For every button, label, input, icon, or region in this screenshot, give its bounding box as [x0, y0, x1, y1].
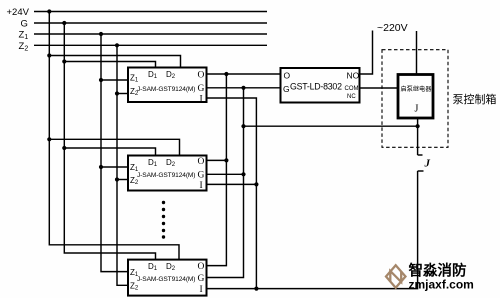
svg-text:J-SAM-GST9124(M): J-SAM-GST9124(M): [137, 276, 196, 283]
node I m3: [254, 287, 258, 291]
wire G bus vertical: [207, 88, 244, 278]
wire O bus vertical: [207, 74, 227, 266]
node +24V/V1: [47, 9, 51, 13]
wire feedback G to relay node: [244, 125, 418, 127]
node G m1: [241, 86, 245, 90]
svg-text:zmjaxf.com: zmjaxf.com: [409, 278, 474, 292]
contact J upper tick: [418, 154, 423, 156]
wire G module1 to 8302: [207, 87, 281, 89]
wire D1 branch module2: [64, 148, 155, 156]
node D1 branch m2: [62, 146, 66, 150]
pump relay J box: [398, 75, 433, 119]
logo icon: [386, 265, 406, 288]
module U1 box: [128, 68, 207, 103]
wire I module3 to contact J: [207, 171, 418, 289]
svg-text:Z1: Z1: [19, 30, 29, 42]
node O m2: [224, 158, 228, 162]
svg-text:Z2: Z2: [19, 41, 29, 53]
wire Z1 module2: [101, 166, 128, 168]
node D2 branch m2: [47, 137, 51, 141]
wire 220V to relay coil: [416, 31, 418, 75]
svg-text:NO: NO: [347, 71, 360, 81]
wire D1 branch module1: [64, 62, 155, 68]
node Z1 m2: [99, 165, 103, 169]
wire NO of 8302 to 220V: [360, 31, 373, 75]
wire G module2: [207, 173, 244, 175]
wire Z2 module1: [117, 93, 128, 95]
svg-text:I: I: [200, 181, 203, 191]
svg-text:O: O: [284, 71, 291, 81]
svg-text:J-SAM-GST9124(M): J-SAM-GST9124(M): [137, 86, 196, 93]
wire Z2 module2: [117, 179, 128, 181]
wire I module2: [207, 183, 257, 185]
node G/V2: [62, 21, 66, 25]
svg-text:GST-LD-8302: GST-LD-8302: [290, 82, 342, 92]
svg-text:J: J: [424, 158, 431, 170]
svg-text:I: I: [200, 95, 203, 105]
node Z2 m1: [115, 91, 119, 95]
wire Z2 rail vertical: [117, 45, 128, 285]
contact J lower tick: [418, 170, 424, 172]
node feedback left: [241, 124, 245, 128]
wire Z1 rail vertical: [101, 34, 128, 272]
node O m1: [224, 72, 228, 76]
wire Z1 module1: [101, 79, 128, 81]
node D1 branch m1: [62, 59, 66, 63]
svg-text:G: G: [283, 84, 290, 94]
wire +24V rail vertical: [49, 12, 179, 260]
node D2 branch m1: [47, 53, 51, 57]
svg-text:I: I: [200, 285, 203, 295]
relay module U4 GST-LD-8302 box: [281, 68, 360, 103]
wire O module2: [207, 159, 227, 161]
svg-text:G: G: [198, 84, 205, 94]
bus Z1: [34, 33, 267, 35]
wire G rail vertical: [64, 23, 155, 260]
node feedback right: [416, 124, 420, 128]
svg-text:J: J: [415, 104, 419, 115]
svg-text:+24V: +24V: [7, 7, 30, 18]
svg-text:泵控制箱: 泵控制箱: [453, 92, 497, 106]
svg-text:J-SAM-GST9124(M): J-SAM-GST9124(M): [137, 172, 196, 179]
node Z1 m1: [99, 78, 103, 82]
svg-text:NC: NC: [347, 94, 356, 100]
svg-text:COM: COM: [345, 86, 359, 92]
bus +24V: [34, 11, 267, 13]
svg-text:启泵继电器: 启泵继电器: [401, 85, 433, 93]
bus G: [34, 22, 267, 24]
wire COM of 8302 to relay box: [360, 87, 399, 89]
svg-text:G: G: [21, 19, 28, 30]
svg-text:G: G: [198, 274, 205, 284]
svg-text:O: O: [198, 262, 205, 272]
svg-text:G: G: [198, 171, 205, 181]
ellipsis more modules: [162, 201, 165, 239]
wire relay coil bottom to contact: [417, 118, 419, 155]
module U2 box: [128, 156, 207, 191]
svg-text:O: O: [198, 71, 205, 81]
node Z2 m2: [115, 177, 119, 181]
svg-text:~220V: ~220V: [377, 22, 408, 34]
node I m2: [254, 182, 258, 186]
bus Z2: [34, 44, 267, 46]
pump control cabinet dashed box: [382, 50, 448, 148]
node Z1/V3: [99, 32, 103, 36]
node Z2/V4: [115, 43, 119, 47]
svg-text:O: O: [198, 157, 205, 167]
wire O module1 to 8302: [207, 73, 281, 75]
wire I module1: [207, 98, 257, 289]
node G m2: [241, 172, 245, 176]
wire D2 branch module2: [49, 139, 179, 155]
module U3 box: [128, 260, 207, 296]
wire D2 branch module1: [49, 56, 180, 68]
